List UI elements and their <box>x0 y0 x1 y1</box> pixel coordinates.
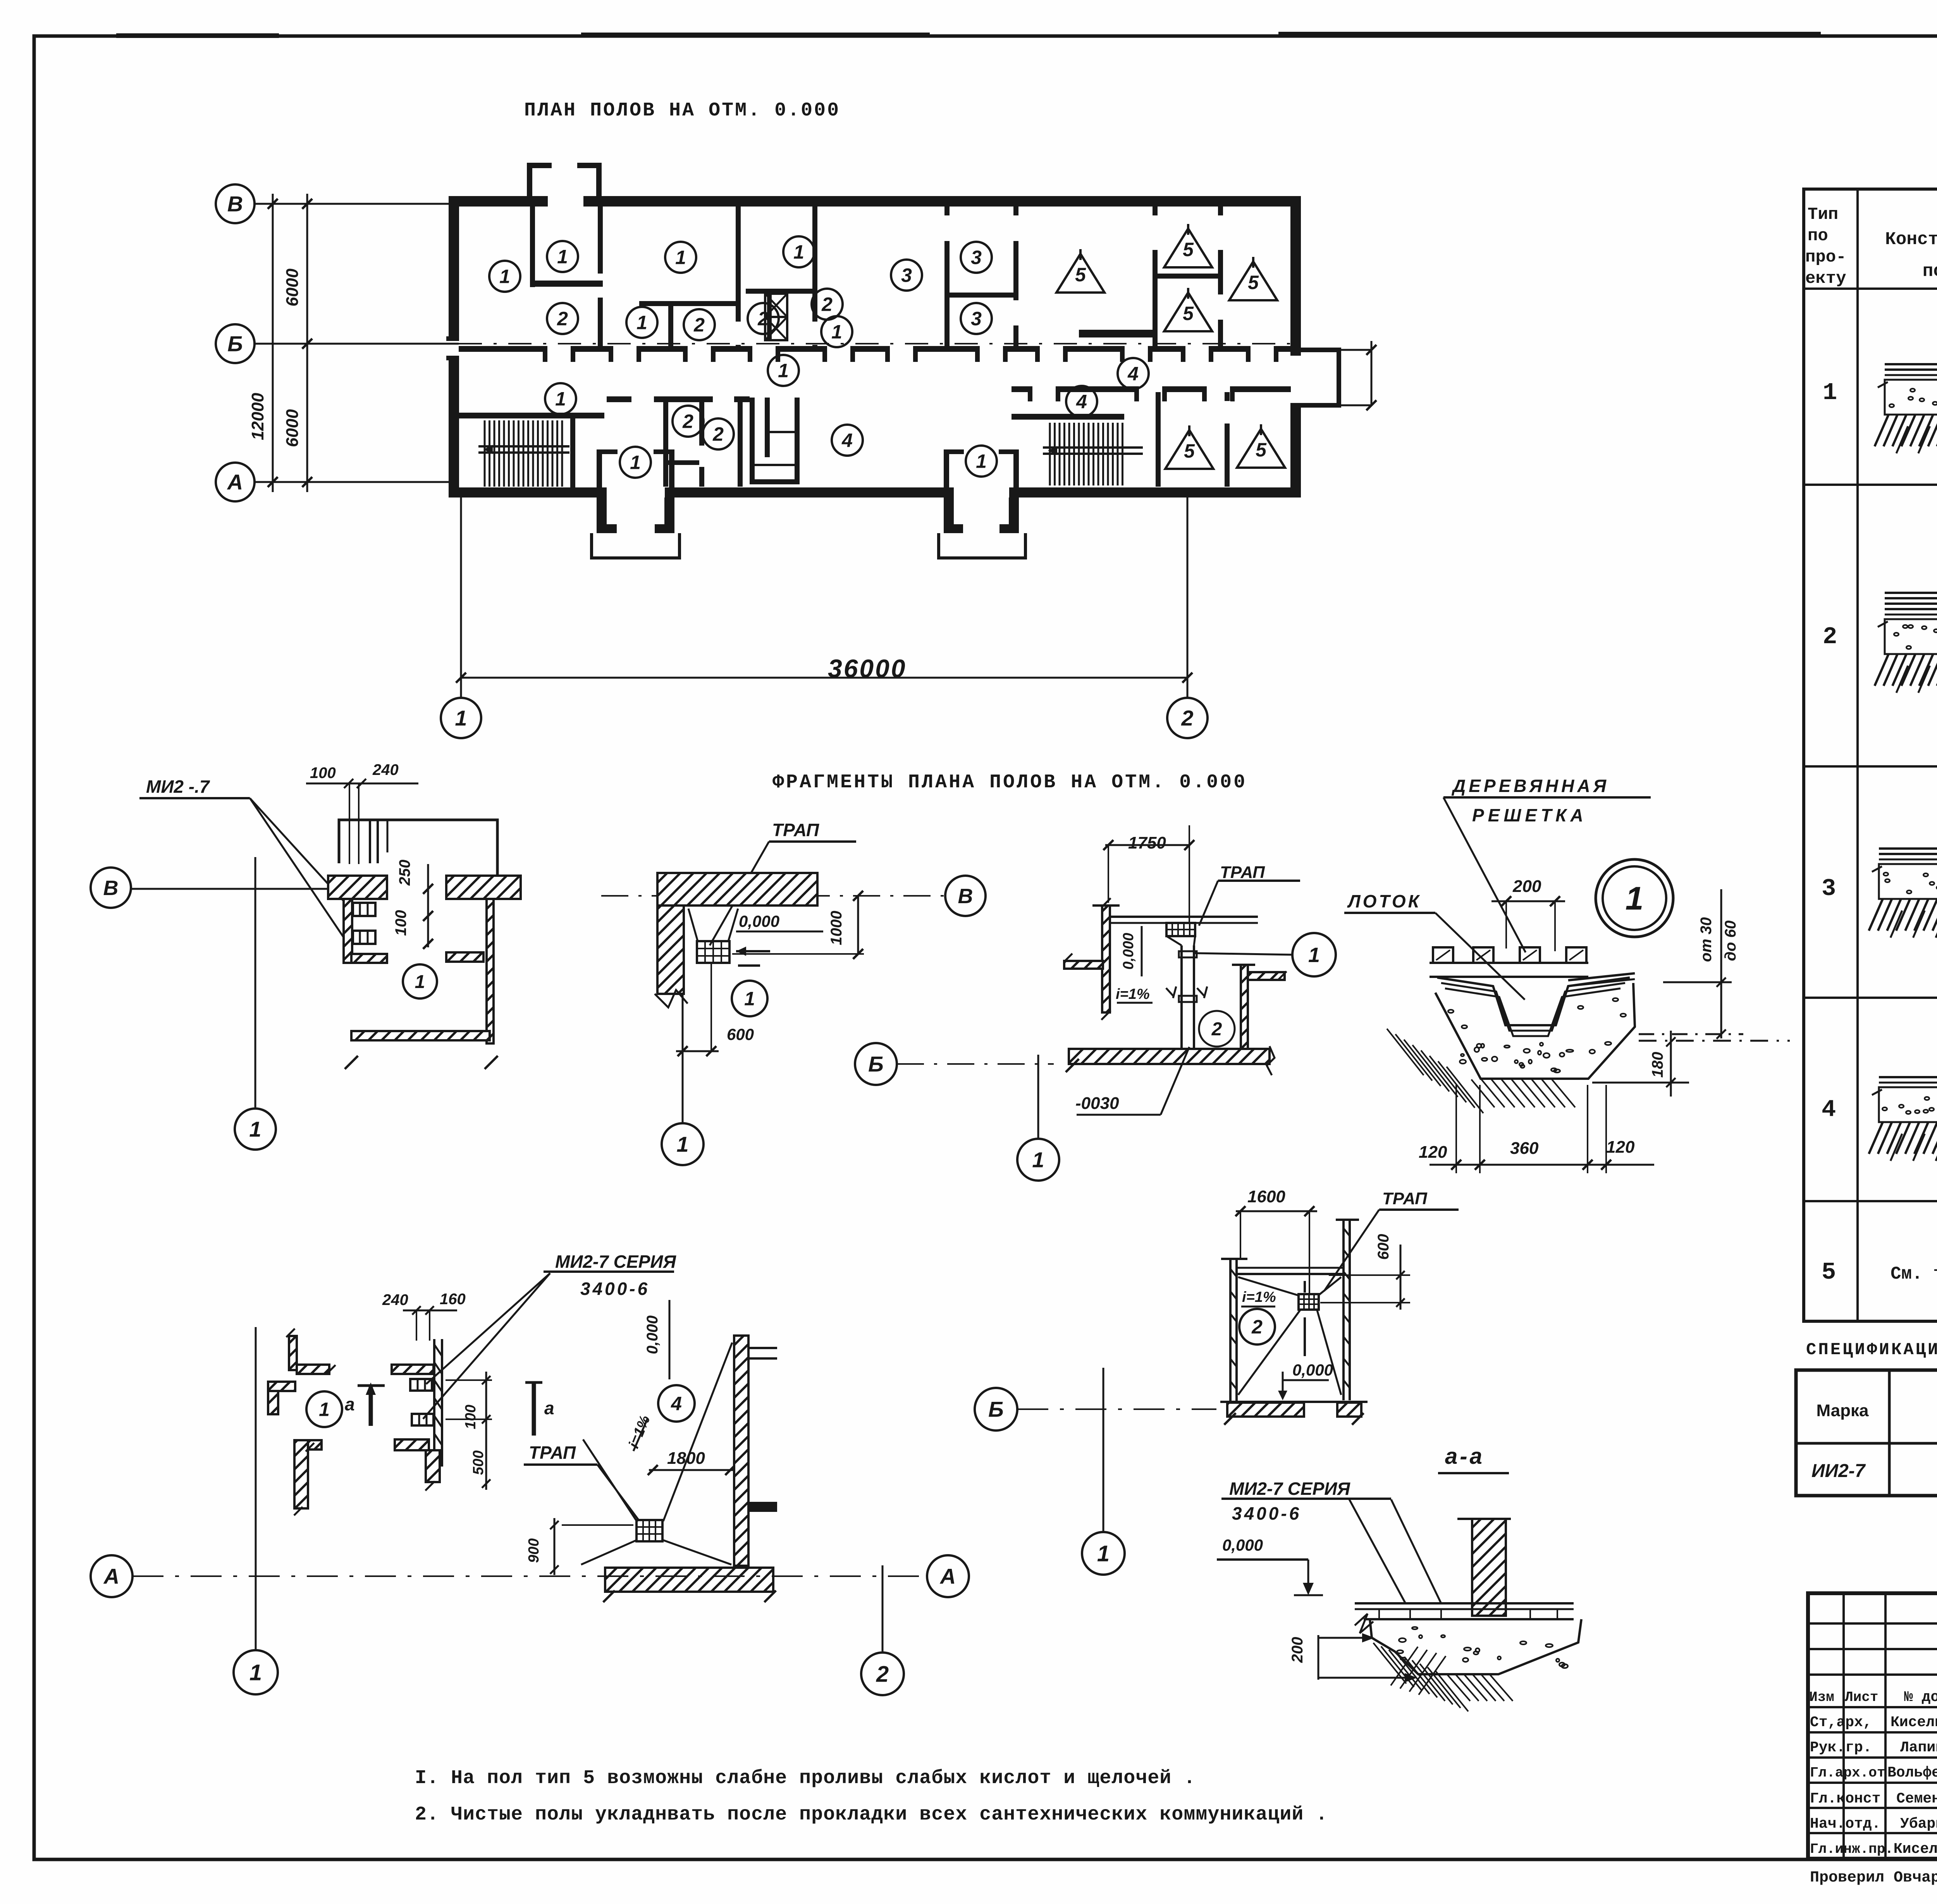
svg-text:1: 1 <box>455 706 467 730</box>
svg-text:Ст,арх,: Ст,арх, <box>1810 1714 1872 1731</box>
svg-text:1: 1 <box>1097 1541 1110 1566</box>
svg-text:1: 1 <box>675 247 686 269</box>
svg-text:1600: 1600 <box>1247 1187 1285 1206</box>
svg-text:240: 240 <box>372 761 399 778</box>
svg-text:А: А <box>103 1564 119 1589</box>
svg-text:4: 4 <box>1822 1096 1836 1123</box>
svg-text:120: 120 <box>1606 1138 1635 1157</box>
svg-text:В: В <box>227 192 243 216</box>
svg-text:1: 1 <box>499 266 510 287</box>
axis line B <box>255 343 459 345</box>
svg-text:0,000: 0,000 <box>644 1315 661 1354</box>
svg-text:3: 3 <box>1822 875 1836 902</box>
svg-text:ПЛАН ПОЛОВ НА ОТМ. 0.000: ПЛАН ПОЛОВ НА ОТМ. 0.000 <box>524 100 840 122</box>
svg-text:360: 360 <box>1510 1139 1539 1158</box>
fragment 5 right room walls <box>734 1336 748 1566</box>
svg-text:100: 100 <box>463 1405 479 1429</box>
corridor lower walls <box>1012 386 1291 392</box>
fragment 6 floor top line <box>1237 1273 1344 1275</box>
fragment 6 slope diagonals <box>1238 1277 1299 1296</box>
fragment 3 tile marks <box>1166 986 1207 998</box>
fragment 3 axis 1 circle <box>1017 1139 1059 1181</box>
svg-text:3400-6: 3400-6 <box>1232 1503 1301 1524</box>
fragment 2 floor lines <box>684 904 817 907</box>
svg-text:Б: Б <box>227 332 243 356</box>
svg-text:Лапина: Лапина <box>1900 1739 1937 1756</box>
svg-text:пола: пола <box>1923 261 1937 281</box>
axis A line bottom-left <box>91 1555 132 1597</box>
svg-text:1: 1 <box>557 246 568 268</box>
svg-text:900: 900 <box>526 1538 542 1563</box>
svg-text:6000: 6000 <box>283 269 302 306</box>
svg-text:i=1%: i=1% <box>1242 1289 1276 1305</box>
fragment 3 left wall <box>1102 906 1110 1012</box>
svg-text:1: 1 <box>249 1660 262 1685</box>
svg-text:1: 1 <box>1308 943 1320 967</box>
fragment 6 room circle 2 <box>1239 1309 1275 1345</box>
svg-text:200: 200 <box>1512 877 1541 896</box>
corridor upper wall <box>459 346 1290 352</box>
explication table frame <box>1804 189 1937 1321</box>
svg-text:2: 2 <box>876 1661 889 1687</box>
right side porch <box>1301 348 1337 352</box>
bottom portico 2 <box>944 498 954 533</box>
fragment 2 slope arrows <box>736 950 770 952</box>
axis circle V <box>216 184 255 223</box>
specification table frame <box>1796 1370 1937 1496</box>
svg-text:4: 4 <box>841 430 853 451</box>
fragment 3 bottom slab hatched <box>1069 1049 1270 1064</box>
axis 2 vertical bottom-left <box>882 1565 884 1651</box>
svg-text:1: 1 <box>744 988 755 1010</box>
svg-text:по: по <box>1808 226 1828 246</box>
svg-text:2: 2 <box>557 308 568 330</box>
svg-text:2: 2 <box>693 314 705 336</box>
svg-text:I. На пол тип 5 возможны слабн: I. На пол тип 5 возможны слабне проливы … <box>415 1767 1196 1789</box>
svg-text:Проверил Овчаренко: Проверил Овчаренко <box>1810 1869 1937 1887</box>
title block left grid horizontals <box>1808 1622 1937 1625</box>
axis 1 vertical bottom-left <box>255 1327 257 1650</box>
svg-text:4: 4 <box>1076 391 1087 413</box>
fragment 7 soil hatch <box>1373 1643 1406 1684</box>
svg-text:до 60: до 60 <box>1722 921 1739 961</box>
svg-text:ФРАГМЕНТЫ ПЛАНА ПОЛОВ НА ОТМ.: ФРАГМЕНТЫ ПЛАНА ПОЛОВ НА ОТМ. 0.000 <box>772 771 1247 794</box>
svg-text:Гл.конст: Гл.конст <box>1810 1790 1880 1807</box>
svg-text:3: 3 <box>971 247 982 269</box>
svg-text:5: 5 <box>1248 272 1259 293</box>
fragment 5 trap box <box>636 1520 662 1541</box>
top portico (tambour) <box>527 163 532 198</box>
construction sketch <box>1879 847 1937 850</box>
svg-text:МИ2 -.7: МИ2 -.7 <box>146 776 210 797</box>
svg-text:ИИ2-7: ИИ2-7 <box>1811 1461 1866 1481</box>
fragment 1 portico outline <box>339 820 497 876</box>
fragment 4 detail circle (double) <box>1596 859 1673 937</box>
svg-text:1: 1 <box>636 312 647 334</box>
fragment 4 grating blocks <box>1433 947 1453 963</box>
svg-text:Убариев: Убариев <box>1900 1816 1937 1832</box>
svg-text:0,000: 0,000 <box>1222 1536 1263 1554</box>
fragment 7 floor slab lines <box>1355 1602 1574 1604</box>
fragment 5 bottom floor band <box>605 1568 773 1592</box>
svg-text:про-: про- <box>1805 248 1846 267</box>
svg-text:100: 100 <box>310 764 336 782</box>
svg-text:а: а <box>544 1398 554 1418</box>
svg-text:0,000: 0,000 <box>1120 933 1137 969</box>
svg-text:250: 250 <box>396 860 413 886</box>
svg-text:240: 240 <box>382 1291 408 1308</box>
axis 2 vertical + circle below plan <box>1187 498 1189 698</box>
fragment 3 right wall <box>1241 965 1248 1049</box>
svg-text:1750: 1750 <box>1128 833 1166 852</box>
svg-text:СПЕЦИФИКАЦИЯ ЭЛЕМЕНТОВ, ЗАМАРК: СПЕЦИФИКАЦИЯ ЭЛЕМЕНТОВ, ЗАМАРКИРОВАННЫХ … <box>1806 1340 1937 1360</box>
fragment 5 room with trap circle 4 <box>658 1385 695 1422</box>
svg-text:ТРАП: ТРАП <box>1382 1189 1428 1208</box>
svg-text:екту: екту <box>1805 269 1846 288</box>
svg-text:Вольфензон: Вольфензон <box>1887 1765 1937 1781</box>
svg-text:5: 5 <box>1183 303 1194 324</box>
fragment 3 trap box with funnel and pipe <box>1166 923 1195 936</box>
svg-text:i=1%: i=1% <box>1116 986 1150 1002</box>
axis line A <box>255 481 449 483</box>
svg-text:3: 3 <box>901 265 912 286</box>
svg-text:100: 100 <box>392 910 409 936</box>
fragment 2 trap box <box>697 941 729 963</box>
axis 1 vertical + circle below plan <box>460 498 462 698</box>
svg-text:1: 1 <box>630 452 641 473</box>
svg-text:-0030: -0030 <box>1075 1094 1119 1113</box>
construction sketch <box>1885 363 1937 365</box>
svg-text:0,000: 0,000 <box>1292 1361 1333 1379</box>
fragment 1 floor type circle 1 <box>403 964 437 998</box>
svg-text:ТРАП: ТРАП <box>529 1443 576 1463</box>
fragment 5 slope diagonals to trap <box>583 1439 637 1522</box>
svg-text:4: 4 <box>1127 363 1139 385</box>
svg-text:Лист: Лист <box>1845 1689 1878 1705</box>
svg-text:МИ2-7 СЕРИЯ: МИ2-7 СЕРИЯ <box>1229 1479 1350 1499</box>
construction sketch <box>1879 1076 1937 1078</box>
svg-text:5: 5 <box>1075 264 1086 286</box>
fragment 6 left wall <box>1229 1259 1232 1401</box>
fragment 1 axis 1 vertical <box>255 857 256 1107</box>
svg-text:1: 1 <box>976 451 987 472</box>
svg-text:1: 1 <box>778 360 789 382</box>
svg-text:а-а: а-а <box>1445 1444 1485 1469</box>
axis circle B <box>216 324 255 363</box>
svg-text:2: 2 <box>682 411 693 432</box>
vestibule stub walls at entrances <box>597 449 602 487</box>
fragment 2 hatched walls <box>657 873 817 906</box>
fragment 2 axis circle V <box>945 876 986 916</box>
fragment 5 wall detail with anchors <box>392 1365 434 1374</box>
svg-text:Тип: Тип <box>1808 205 1838 224</box>
svg-text:5: 5 <box>1822 1258 1836 1286</box>
fragment 5 circle 1 <box>306 1391 342 1427</box>
fragment 4 trough lining (nested U) <box>1437 978 1630 1025</box>
svg-text:Марка: Марка <box>1816 1401 1869 1420</box>
svg-text:от 30: от 30 <box>1698 917 1715 962</box>
svg-text:1: 1 <box>319 1399 330 1420</box>
svg-text:1: 1 <box>1823 379 1837 406</box>
fragment 6 right wall <box>1342 1220 1345 1400</box>
svg-text:3: 3 <box>971 308 982 330</box>
svg-text:500: 500 <box>470 1450 487 1475</box>
title block outer frame <box>1808 1593 1937 1859</box>
svg-text:36000: 36000 <box>828 654 907 683</box>
svg-text:1: 1 <box>793 241 804 263</box>
svg-text:2. Чистые полы укладнвать посл: 2. Чистые полы укладнвать после прокладк… <box>415 1804 1328 1826</box>
wall right of left stairs <box>570 418 575 487</box>
svg-text:2: 2 <box>1181 706 1193 730</box>
svg-text:ТРАП: ТРАП <box>1220 863 1265 882</box>
svg-text:2: 2 <box>1251 1316 1263 1338</box>
svg-text:Гл.арх.от: Гл.арх.от <box>1810 1765 1885 1781</box>
fragment 4 floor band under blocks <box>1430 962 1588 964</box>
axis line V <box>255 203 449 205</box>
svg-text:2: 2 <box>1211 1019 1222 1040</box>
svg-text:200: 200 <box>1289 1637 1306 1663</box>
fragment 7 break marks left <box>1355 1614 1373 1633</box>
bottom portico 1 <box>597 498 607 533</box>
svg-text:Конструкция: Конструкция <box>1885 229 1937 250</box>
fragment 1 end ticks <box>345 1056 358 1069</box>
fragment 3 axis B circle <box>855 1043 897 1085</box>
svg-text:12000: 12000 <box>248 393 267 440</box>
svg-text:180: 180 <box>1649 1052 1666 1078</box>
fragment 1 axis circle V <box>91 868 131 908</box>
svg-text:Б: Б <box>988 1397 1004 1422</box>
svg-text:160: 160 <box>440 1291 466 1308</box>
fragment 3 detail circle 1 <box>1292 933 1336 976</box>
svg-text:2: 2 <box>712 423 724 445</box>
svg-text:Гл.инж.пр: Гл.инж.пр <box>1810 1841 1885 1857</box>
fragment 5 section mark a (right) <box>525 1381 542 1384</box>
svg-text:5: 5 <box>1183 239 1194 260</box>
svg-text:1: 1 <box>555 388 566 410</box>
svg-text:ТРАП: ТРАП <box>772 820 819 840</box>
svg-text:5: 5 <box>1256 439 1267 461</box>
plan internal walls: top half verticals <box>530 207 535 287</box>
svg-text:1000: 1000 <box>828 911 845 945</box>
svg-text:№ докум: № докум <box>1904 1689 1937 1706</box>
svg-text:МИ2-7 СЕРИЯ: МИ2-7 СЕРИЯ <box>555 1252 676 1272</box>
svg-text:1800: 1800 <box>667 1449 705 1468</box>
floor type triangles (type 5) <box>1056 254 1104 293</box>
floor plan: outer walls <box>449 196 1301 207</box>
svg-text:2: 2 <box>821 294 833 315</box>
svg-text:1: 1 <box>831 321 842 343</box>
svg-text:Рук.гр.: Рук.гр. <box>1810 1739 1872 1756</box>
svg-text:Изм: Изм <box>1809 1689 1834 1705</box>
fragment 5 left corner pieces <box>289 1336 297 1370</box>
svg-text:А: А <box>939 1564 956 1589</box>
ventilation shafts with X <box>765 294 787 317</box>
dimension line 36000 <box>461 677 1187 679</box>
fragment 2 break marks <box>655 990 688 1007</box>
svg-text:600: 600 <box>727 1025 754 1043</box>
svg-text:РЕШЕТКА: РЕШЕТКА <box>1472 805 1587 825</box>
room number circles <box>489 261 520 292</box>
svg-text:А: А <box>227 470 243 494</box>
svg-text:а: а <box>345 1394 355 1414</box>
left wall corridor opening <box>448 341 460 356</box>
fragment 6 axis 1 <box>1082 1532 1125 1575</box>
svg-text:В: В <box>958 885 973 908</box>
svg-text:1: 1 <box>415 972 425 992</box>
axis circle A <box>216 463 255 501</box>
fragment 2 axis 1 vertical + circle <box>682 994 684 1123</box>
plan internal walls: top half horizontals <box>530 281 603 287</box>
fragment 4 concrete mass <box>1435 983 1635 1079</box>
fragment 4 soil hatch <box>1387 1029 1424 1075</box>
svg-text:5: 5 <box>1184 440 1195 462</box>
svg-text:Нач.отд.: Нач.отд. <box>1810 1816 1880 1832</box>
fragment 1 anchor plates <box>353 903 375 916</box>
bottom middle small rooms <box>607 396 750 402</box>
fragment 2 trap funnel <box>688 909 698 941</box>
vertical dimension lines 12000/6000 <box>272 194 274 492</box>
svg-text:0,000: 0,000 <box>739 912 779 930</box>
svg-text:2: 2 <box>757 308 769 330</box>
fragment 3 floor slab top <box>1109 916 1258 918</box>
fragment 6 bottom floor <box>1220 1401 1368 1403</box>
svg-text:1: 1 <box>676 1132 688 1157</box>
svg-text:2: 2 <box>1823 623 1837 651</box>
fragment 1 hatched walls <box>328 876 387 899</box>
fragment 6 axis B <box>975 1388 1017 1431</box>
title block left grid verticals <box>1842 1593 1845 1859</box>
fragment 7 wall above floor <box>1472 1519 1506 1616</box>
bottom right partitions <box>1156 392 1161 487</box>
svg-text:3400-6: 3400-6 <box>580 1279 650 1299</box>
svg-text:4: 4 <box>671 1393 682 1415</box>
svg-text:ДЕРЕВЯННАЯ: ДЕРЕВЯННАЯ <box>1451 776 1609 796</box>
stairs right (hatched) <box>1049 423 1051 485</box>
fragment 7 concrete mass <box>1370 1619 1581 1674</box>
middle stair (ladder shape) <box>750 398 755 484</box>
svg-text:См. тип 2: См. тип 2 <box>1891 1264 1937 1284</box>
fragment 5 section mark a (left) <box>358 1384 385 1387</box>
construction sketch <box>1885 592 1937 594</box>
svg-text:120: 120 <box>1419 1143 1447 1162</box>
svg-text:1: 1 <box>249 1117 261 1141</box>
svg-text:Семенов: Семенов <box>1896 1790 1937 1807</box>
fragment 6 trap box <box>1299 1294 1319 1310</box>
svg-text:1: 1 <box>1626 880 1644 916</box>
svg-text:ЛОТОК: ЛОТОК <box>1347 891 1421 911</box>
svg-text:Кисельман: Кисельман <box>1891 1714 1937 1731</box>
svg-text:6000: 6000 <box>283 409 302 447</box>
stairs left (hatched) <box>484 420 486 487</box>
svg-text:1: 1 <box>1032 1148 1044 1172</box>
fragment 2 floor type circle <box>732 981 767 1016</box>
svg-text:Б: Б <box>868 1052 884 1076</box>
svg-text:.Киселева: .Киселева <box>1885 1841 1937 1858</box>
fragment 3 room circle 2 <box>1199 1011 1235 1047</box>
svg-text:600: 600 <box>1375 1234 1392 1260</box>
svg-text:В: В <box>103 876 119 900</box>
